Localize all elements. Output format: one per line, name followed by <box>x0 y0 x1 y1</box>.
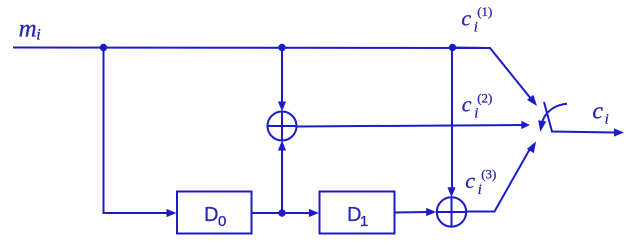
svg-text:(2): (2) <box>477 91 492 106</box>
arrowhead into D1 <box>309 209 319 217</box>
arrowhead into XOR1 bottom <box>278 141 286 151</box>
wire: D1 to XOR2 <box>395 211 428 214</box>
svg-text:(1): (1) <box>477 4 492 19</box>
arrowhead into D0 <box>167 209 177 217</box>
arrowhead of wiper arc <box>538 120 546 132</box>
svg-text:0: 0 <box>218 213 226 230</box>
svg-text:c: c <box>462 92 472 117</box>
XOR adder A1 <box>268 112 297 141</box>
selector lever <box>544 102 615 133</box>
svg-text:m: m <box>19 15 37 42</box>
svg-text:c: c <box>461 6 471 31</box>
svg-text:c: c <box>592 99 603 125</box>
node J1 <box>100 44 107 51</box>
svg-text:i: i <box>474 106 478 122</box>
wire: XOR2 to selector (c3) <box>467 147 532 212</box>
delay D1 box <box>320 192 395 234</box>
node J2 <box>278 44 285 51</box>
svg-text:i: i <box>36 27 40 44</box>
wire: D0 to D1 <box>252 212 310 214</box>
svg-text:i: i <box>605 112 609 128</box>
wire: branch down to D0 <box>104 48 168 214</box>
delay D0 box <box>177 192 252 234</box>
node J4 <box>278 209 285 216</box>
svg-text:i: i <box>474 20 478 36</box>
wire: J2 down to XOR1 top <box>281 48 283 104</box>
wire: J4 up to XOR1 bottom <box>281 149 283 213</box>
svg-text:c: c <box>465 168 475 193</box>
arrowhead of output c_i <box>614 128 624 136</box>
arrowhead c2 into selector <box>521 121 530 129</box>
arrowhead into XOR1 top <box>278 102 286 112</box>
arrowhead c3 into selector <box>527 142 536 154</box>
wire: J3 down to XOR2 top <box>451 48 453 190</box>
svg-text:i: i <box>478 182 482 198</box>
wire: main input line m_i <box>13 47 490 50</box>
svg-text:D: D <box>204 204 218 226</box>
selector wiper arc <box>542 104 567 123</box>
wire: XOR1 to selector (c2) <box>297 125 523 127</box>
arrowhead c1 into selector <box>527 95 537 106</box>
arrowhead into XOR2 top <box>447 187 455 197</box>
node J3 <box>449 44 456 51</box>
XOR adder A2 <box>437 197 466 226</box>
wire: J3 to selector (c1 diagonal) <box>452 48 532 101</box>
svg-text:(3): (3) <box>481 167 496 182</box>
svg-text:1: 1 <box>360 213 368 230</box>
arrowhead into XOR2 left <box>426 208 436 216</box>
